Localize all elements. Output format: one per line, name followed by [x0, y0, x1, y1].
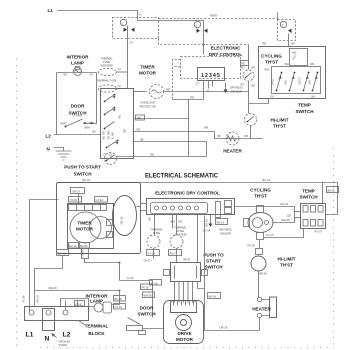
connector pin 2 circled	[194, 21, 200, 27]
connector P1 dashed box	[113, 18, 159, 39]
svg-text:TEMP: TEMP	[302, 189, 315, 194]
svg-text:RD: RD	[241, 66, 245, 70]
terminal block box	[25, 307, 89, 321]
svg-text:(HEATER): (HEATER)	[100, 64, 112, 68]
wire RD-42	[235, 207, 295, 212]
wire lamp right leg	[112, 291, 120, 305]
wire timer BK out	[134, 142, 207, 157]
svg-text:HEATER: HEATER	[252, 307, 271, 312]
svg-text:RD-2: RD-2	[170, 251, 177, 255]
wire stub into connector	[277, 13, 279, 20]
svg-text:LAMP: LAMP	[90, 299, 103, 304]
svg-text:FUSE: FUSE	[177, 229, 184, 233]
svg-text:PU: PU	[241, 83, 245, 87]
node junction dots	[119, 290, 121, 292]
wires below dry control	[203, 81, 205, 100]
wire PU-37	[264, 229, 304, 238]
svg-text:GY: GY	[118, 67, 122, 71]
wire lamp left leg	[61, 299, 95, 307]
dry control connector strip	[151, 203, 208, 214]
wire heater rail	[215, 132, 263, 139]
svg-text:L1: L1	[48, 8, 54, 13]
svg-text:RD: RD	[191, 96, 195, 100]
temp switch left tab	[295, 212, 301, 218]
svg-text:TIMER: TIMER	[140, 65, 155, 70]
timer motor M1	[150, 85, 164, 99]
svg-text:INTERIOR: INTERIOR	[67, 55, 90, 60]
svg-text:WH-38: WH-38	[144, 294, 153, 298]
wire lamp left drop to L2	[56, 73, 58, 135]
wire cycling to hi-limit (bottom)	[259, 240, 261, 249]
wire OR-19 drop	[78, 194, 80, 204]
electronic dry control dashed outline	[181, 57, 241, 79]
svg-text:BK-34: BK-34	[209, 294, 217, 298]
svg-text:WH: WH	[285, 62, 289, 66]
interior lamp bulb	[94, 303, 103, 312]
svg-text:HEATER: HEATER	[223, 149, 242, 154]
temp switch pins	[303, 206, 308, 213]
thermal fuse F2	[99, 85, 117, 92]
svg-text:PU-39: PU-39	[248, 244, 256, 248]
page border bottom dotted	[41, 347, 334, 349]
timer contacts	[105, 95, 118, 148]
svg-text:SENSOR: SENSOR	[220, 232, 231, 236]
svg-text:REG: REG	[271, 79, 275, 85]
wire label BK-34 boxed	[208, 293, 221, 299]
wire door to motor	[143, 328, 164, 330]
temp switch outer box	[259, 47, 326, 99]
svg-text:THERMAL FUSE: THERMAL FUSE	[97, 79, 117, 83]
svg-text:GN-GY: GN-GY	[144, 259, 153, 263]
svg-text:BR-56: BR-56	[260, 272, 268, 276]
svg-text:OR-18: OR-18	[120, 216, 124, 224]
svg-text:GY-24: GY-24	[115, 305, 123, 309]
svg-text:RD: RD	[137, 116, 141, 120]
dryness sensor arrow	[225, 83, 227, 91]
wire BU-41 to N	[35, 256, 63, 307]
svg-text:GY: GY	[118, 84, 122, 88]
wire bus drop right	[326, 183, 338, 215]
wire label GY-24	[95, 197, 108, 203]
page border left dotted	[16, 59, 18, 346]
svg-text:BK-34: BK-34	[205, 219, 209, 227]
svg-text:RD: RD	[242, 62, 246, 66]
svg-text:N: N	[45, 336, 50, 343]
wire dashed left legs of dry control	[173, 60, 181, 100]
svg-text:TMER: TMER	[210, 14, 217, 18]
wires push start to motor	[175, 282, 193, 303]
svg-text:OR WH: OR WH	[107, 130, 111, 139]
wire RD-R to push start	[197, 215, 199, 263]
wire door switch feed	[120, 281, 153, 318]
svg-text:AIR: AIR	[308, 80, 312, 84]
svg-text:DRIVE: DRIVE	[177, 331, 191, 336]
svg-text:BU-41: BU-41	[58, 251, 66, 255]
wire heater bottom leg	[259, 318, 261, 331]
wire BR from timer motor	[164, 91, 249, 93]
wire label RD-19 boxed	[216, 219, 228, 225]
svg-text:RD: RD	[151, 153, 155, 157]
wire label BK-56 boxed	[327, 187, 339, 193]
svg-text:PUSH TO START: PUSH TO START	[64, 165, 101, 170]
drive motor connector	[171, 301, 197, 313]
svg-text:TH'ST: TH'ST	[280, 263, 293, 268]
heater element bar	[270, 297, 277, 318]
svg-text:OR-19: OR-19	[72, 189, 80, 193]
svg-text:BU RD: BU RD	[102, 131, 106, 139]
svg-text:L1: L1	[26, 332, 34, 339]
dry control outer box	[147, 199, 235, 215]
timer bottom labels	[69, 243, 79, 249]
timer side terminals	[107, 220, 113, 226]
dry control board edge	[216, 202, 221, 218]
svg-text:BU-8K: BU-8K	[80, 244, 88, 248]
wire hi-limit to heater (bottom)	[258, 271, 260, 298]
timer motor circle	[70, 212, 101, 243]
svg-text:GY: GY	[103, 152, 107, 156]
wire timer RD lower out	[134, 131, 215, 133]
svg-text:WH: WH	[265, 68, 269, 72]
svg-text:WH: WH	[171, 220, 175, 224]
svg-text:YL: YL	[207, 89, 211, 93]
svg-text:WH-38: WH-38	[282, 218, 291, 222]
wire left bus to L1	[30, 200, 59, 311]
svg-text:THERMAL: THERMAL	[150, 228, 163, 232]
terminal N sub box	[43, 309, 55, 331]
wire N to ground	[54, 148, 64, 151]
svg-text:DOOR: DOOR	[140, 306, 154, 311]
wire WH-29 run	[35, 290, 120, 292]
svg-text:GY-24: GY-24	[96, 198, 104, 202]
terminal block label	[79, 321, 85, 325]
svg-text:10K: 10K	[251, 66, 256, 70]
svg-text:BK: BK	[148, 217, 152, 221]
svg-text:BU-40: BU-40	[115, 297, 123, 301]
wire lamp circuit from connector	[127, 26, 129, 89]
temp switch contacts	[277, 73, 318, 91]
svg-text:12345: 12345	[201, 73, 221, 79]
svg-text:STRAP: STRAP	[59, 343, 68, 347]
connector pin 3 circled	[280, 21, 286, 27]
harness dashed lower run	[159, 39, 249, 45]
svg-text:SWITCH: SWITCH	[73, 172, 92, 177]
svg-text:BR: BR	[167, 88, 171, 92]
push to start switch S1	[105, 153, 117, 165]
wire bus drop to temp switch	[322, 183, 324, 204]
wire GN-GY to door circuit	[85, 259, 120, 281]
wire fuse to push start	[176, 248, 178, 263]
svg-text:L2: L2	[46, 134, 52, 139]
svg-text:RD: RD	[137, 128, 141, 132]
svg-text:GY: GY	[130, 41, 134, 45]
svg-text:PU-37: PU-37	[267, 233, 275, 237]
svg-text:BU: BU	[93, 130, 97, 134]
cycling top stud	[257, 206, 264, 213]
thermal fuse F1	[99, 68, 117, 75]
svg-text:BK-24: BK-24	[36, 295, 40, 303]
svg-text:SWITCH: SWITCH	[299, 195, 318, 200]
svg-text:BU: BU	[64, 73, 68, 77]
svg-text:GN-34: GN-34	[203, 229, 211, 233]
svg-text:YL-36: YL-36	[22, 295, 26, 302]
svg-text:START: START	[206, 259, 221, 264]
svg-text:DOOR: DOOR	[71, 104, 85, 109]
ground wire GN	[210, 215, 212, 225]
svg-text:BK: BK	[252, 84, 256, 88]
wire temp sw PU leg	[249, 99, 269, 104]
wire label GN-GY boxed	[82, 249, 89, 259]
dry control terminal strip	[198, 68, 225, 81]
svg-text:OVERLOAD: OVERLOAD	[140, 101, 155, 105]
lamp wire labels	[114, 296, 126, 302]
svg-text:BU-10: BU-10	[69, 244, 77, 248]
door switch contact	[65, 126, 67, 128]
svg-text:L2: L2	[63, 332, 71, 339]
svg-text:AUTO: AUTO	[298, 77, 302, 84]
svg-text:THERMAL: THERMAL	[100, 57, 113, 61]
svg-text:HI-LIMIT: HI-LIMIT	[270, 118, 288, 123]
svg-text:DRY CONTROL: DRY CONTROL	[209, 52, 243, 57]
ground strap label	[52, 334, 57, 338]
wire push start right leg	[198, 282, 205, 289]
svg-text:BU-44: BU-44	[83, 178, 91, 182]
drive motor circle	[176, 315, 192, 331]
heater HE1	[226, 132, 239, 145]
connector arrows	[124, 28, 135, 32]
svg-text:RD-42: RD-42	[281, 202, 289, 206]
svg-text:SWITCH: SWITCH	[137, 312, 156, 317]
wire cycling to hi-limit	[248, 81, 250, 114]
connector pins	[155, 206, 159, 210]
hi-limit thermostat T2	[245, 114, 257, 126]
wire main bus BU-44	[57, 182, 338, 184]
wire BK from connector to temp switch	[288, 34, 290, 47]
svg-text:TH'ST: TH'ST	[273, 124, 286, 129]
wire label YC-63	[69, 197, 82, 203]
harness dashed run to right	[159, 18, 278, 20]
svg-text:BU: BU	[312, 95, 316, 99]
svg-text:OR-18: OR-18	[220, 326, 228, 330]
timer assembly outer box	[57, 183, 141, 254]
svg-text:RD-R: RD-R	[184, 258, 191, 262]
lamp B1	[74, 68, 82, 76]
svg-text:RD: RD	[263, 42, 267, 46]
svg-text:BRN: BRN	[85, 126, 91, 130]
svg-text:GY-24: GY-24	[148, 251, 156, 255]
connector arrow	[288, 29, 292, 33]
wire L2	[54, 134, 101, 136]
svg-text:LT-GRN: LT-GRN	[73, 114, 82, 118]
wire stub left of motor	[134, 91, 147, 93]
wire hi-limit to heater	[250, 126, 252, 139]
drive motor box	[164, 301, 204, 344]
cycling left tab	[244, 219, 250, 227]
svg-text:MOTOR: MOTOR	[76, 227, 94, 232]
hi-limit thermostat body (bottom)	[251, 256, 266, 271]
svg-text:ELECTRICAL SCHEMATIC: ELECTRICAL SCHEMATIC	[145, 173, 218, 180]
wire eldc left leg	[173, 99, 204, 101]
door switch mechanism	[128, 318, 141, 325]
svg-text:CYCLING: CYCLING	[261, 54, 282, 59]
svg-text:CYCLING: CYCLING	[250, 188, 271, 193]
svg-text:YL: YL	[139, 13, 143, 17]
wire label BU-41 boxed	[57, 250, 69, 256]
temp switch box (bottom)	[301, 204, 326, 229]
svg-text:BU-44: BU-44	[263, 178, 271, 182]
svg-text:ELECTRONIC DRY CONTROL: ELECTRONIC DRY CONTROL	[155, 191, 220, 196]
timer cam circle	[90, 217, 112, 239]
svg-text:WH-29: WH-29	[49, 286, 58, 290]
cycling thermostat T1	[243, 70, 254, 81]
svg-text:PUSH TO: PUSH TO	[203, 253, 224, 258]
wire lamp right drop	[85, 73, 97, 124]
svg-text:PU-37: PU-37	[315, 230, 323, 234]
svg-text:RD: RD	[179, 220, 183, 224]
connector arrows	[197, 29, 208, 33]
wire push-start to right	[117, 156, 207, 158]
svg-text:BU: BU	[109, 153, 113, 157]
svg-text:GROUND: GROUND	[59, 340, 71, 344]
temp switch inner box lower	[272, 67, 321, 94]
terminal lugs	[29, 310, 34, 315]
ground	[56, 151, 72, 160]
svg-text:PU: PU	[271, 95, 275, 99]
svg-text:FUSE: FUSE	[153, 231, 160, 235]
svg-text:FUSE: FUSE	[103, 60, 110, 64]
svg-text:YL-36: YL-36	[151, 281, 158, 285]
wire lamp rail	[57, 72, 97, 74]
svg-text:YC-63: YC-63	[70, 198, 78, 202]
svg-text:LAMP: LAMP	[71, 61, 84, 66]
wires down from dry control	[154, 215, 156, 235]
svg-text:BK: BK	[218, 134, 222, 138]
wire WH-38	[273, 218, 295, 223]
cycling thermostat body	[248, 213, 273, 233]
svg-text:TIMER: TIMER	[77, 221, 92, 226]
svg-text:GY: GY	[196, 82, 200, 86]
wire label OR-19 boxed	[71, 188, 85, 194]
svg-text:(HEATER): (HEATER)	[174, 233, 186, 237]
wire L1 bus	[58, 11, 204, 55]
wire RD to cycling tstat	[248, 45, 250, 70]
wire oval to tab	[137, 206, 141, 208]
svg-text:BK: BK	[141, 138, 145, 142]
heater terminals	[257, 297, 261, 301]
svg-text:ELECTRONIC: ELECTRONIC	[211, 46, 242, 51]
svg-text:12A: 12A	[287, 214, 292, 218]
timer terminal strip	[69, 205, 107, 211]
thermal fuse F4	[170, 235, 183, 248]
svg-text:SENSOR: SENSOR	[231, 90, 242, 94]
dry control right squares	[225, 201, 232, 207]
svg-text:BK: BK	[123, 129, 127, 133]
svg-text:SWITCH: SWITCH	[204, 265, 223, 270]
svg-text:BR: BR	[205, 126, 209, 130]
svg-text:GY-8: GY-8	[76, 302, 82, 306]
timer inner box	[68, 204, 114, 249]
svg-text:TERMINAL: TERMINAL	[85, 324, 109, 329]
svg-text:RD: RD	[311, 62, 315, 66]
svg-text:TEMP: TEMP	[298, 103, 311, 108]
temp switch inner box upper	[290, 49, 308, 66]
svg-text:PROTECTOR: PROTECTOR	[139, 105, 155, 109]
wire long right leg to heater bottom	[205, 216, 260, 331]
svg-text:BK: BK	[292, 42, 296, 46]
svg-text:PK-35: PK-35	[142, 286, 150, 290]
svg-text:MOTOR: MOTOR	[176, 337, 194, 342]
connector P3 dashed box	[278, 20, 296, 41]
svg-text:GY: GY	[90, 73, 94, 77]
wire riser	[188, 100, 190, 157]
svg-text:DRYNESS: DRYNESS	[219, 228, 232, 232]
node junction dot	[202, 43, 204, 45]
svg-text:HI-LIMIT: HI-LIMIT	[277, 257, 295, 262]
hi-limit top tab	[256, 249, 263, 255]
svg-text:RD: RD	[118, 115, 122, 119]
push to start switch box	[171, 263, 201, 282]
svg-text:GN-64: GN-64	[81, 249, 85, 257]
connector pin 1 circled	[120, 19, 126, 25]
svg-text:TH'ST: TH'ST	[265, 60, 278, 65]
dry control left tab	[141, 204, 147, 211]
dry control console oval	[113, 196, 137, 236]
svg-text:SWITCH: SWITCH	[295, 109, 314, 114]
svg-text:RD: RD	[245, 134, 249, 138]
svg-text:YL BK: YL BK	[111, 132, 115, 140]
svg-text:BK-56: BK-56	[328, 188, 336, 192]
svg-text:BLOCK: BLOCK	[88, 331, 105, 336]
fuse wire labels	[147, 250, 160, 256]
svg-text:MOTOR: MOTOR	[139, 71, 157, 76]
wire L2 drop	[66, 301, 78, 311]
svg-text:DEL: DEL	[284, 79, 288, 85]
page border right dotted	[333, 149, 335, 346]
cycling bottom stud	[257, 233, 264, 240]
svg-text:THERMAL: THERMAL	[174, 226, 187, 230]
thermal fuse F3	[147, 235, 160, 248]
svg-text:TH'ST: TH'ST	[254, 194, 267, 199]
wire timer RD out	[134, 118, 189, 120]
svg-text:WHT: WHT	[61, 122, 67, 126]
svg-text:RD-19: RD-19	[217, 220, 225, 224]
svg-text:YL-36: YL-36	[127, 276, 134, 280]
timer box	[101, 89, 134, 159]
